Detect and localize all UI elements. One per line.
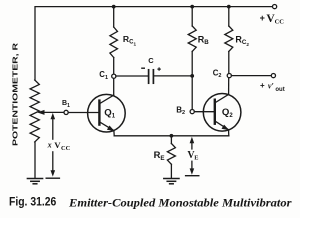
svg-text:E: E [194, 155, 198, 162]
resistor RC1 [113, 7, 115, 27]
resistor RB [191, 7, 193, 26]
wire C1 to capacitor [116, 75, 148, 77]
transistor Q2 [203, 94, 241, 132]
svg-text:x: x [47, 141, 52, 150]
svg-text:B2: B2 [176, 105, 185, 116]
wire top supply rail [35, 7, 272, 80]
svg-text:Fig. 31.26: Fig. 31.26 [9, 195, 57, 208]
label plus [157, 67, 160, 70]
wire C1 node to Q1 collector [113, 78, 115, 95]
transistor Q1 [88, 94, 126, 132]
wire emitter bus [114, 135, 229, 137]
svg-text:POTENTIOMETER, R: POTENTIOMETER, R [11, 42, 20, 146]
terminal +Vcc [273, 5, 277, 9]
svg-text:RE: RE [154, 149, 165, 162]
node C2 [227, 74, 231, 78]
svg-text:RB: RB [198, 35, 210, 47]
wire C2 to output terminal [231, 75, 271, 77]
svg-text:C2: C2 [213, 68, 222, 79]
wire B1 to Q1 base [68, 112, 99, 114]
svg-text:C: C [148, 56, 154, 65]
node junction on rail at RB [190, 5, 194, 9]
svg-text:+: + [260, 13, 265, 23]
svg-text:CC: CC [275, 18, 285, 25]
node junction on rail at RC2 [227, 5, 231, 9]
node junction RB/C/B2 [190, 74, 194, 78]
svg-text:out: out [275, 87, 284, 93]
svg-text:v′: v′ [268, 82, 274, 91]
wire B2 to Q2 base [194, 111, 214, 113]
potentiometer R element [30, 80, 39, 142]
label VE [186, 150, 198, 161]
potentiometer wiper arrow [44, 111, 64, 113]
svg-text:B1: B1 [62, 100, 70, 109]
svg-text:C1: C1 [99, 70, 108, 81]
resistor RE [170, 136, 172, 144]
terminal output [271, 74, 275, 78]
svg-text:Q1: Q1 [104, 107, 115, 119]
svg-text:RC2: RC2 [235, 35, 249, 47]
wire capacitor to RB/B2 node [154, 75, 192, 77]
node B2 [190, 110, 194, 114]
ground (RE) [164, 178, 179, 180]
VE measuring arrow [191, 140, 193, 171]
wire pot bottom to ground [34, 142, 36, 178]
resistor RC2 [228, 7, 230, 26]
svg-text:Emitter-Coupled Monostable Mul: Emitter-Coupled Monostable Multivibrator [68, 197, 292, 209]
svg-text:Q2: Q2 [222, 107, 233, 119]
node junction RE [170, 134, 174, 138]
svg-text:RC1: RC1 [123, 34, 137, 46]
node B1 [64, 110, 68, 114]
label x Vcc [46, 140, 71, 151]
x Vcc measuring arrow [52, 117, 54, 174]
capacitor C [148, 70, 150, 83]
node C1 [112, 74, 116, 78]
node junction on rail at RC1 [112, 5, 116, 9]
label minus [141, 67, 145, 69]
svg-text:+: + [260, 81, 265, 90]
wire C2 node to Q2 collector [228, 78, 230, 95]
ground (potentiometer) [27, 178, 42, 180]
svg-text:CC: CC [61, 145, 71, 152]
